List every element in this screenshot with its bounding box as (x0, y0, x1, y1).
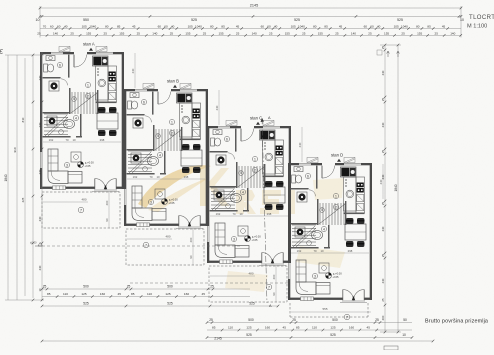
top dimension chains (40, 6, 461, 38)
watermark logo (138, 165, 345, 292)
unit stan D (288, 158, 383, 303)
unit stan C (207, 121, 302, 266)
section line A-A (262, 118, 267, 303)
scan noise film (0, 0, 1, 1)
setback dashed line AB (42, 245, 240, 247)
terrace stan A (42, 192, 120, 228)
label 7 terrace B (143, 242, 149, 248)
terrace stan C (209, 266, 287, 302)
bottom dimension chains under A B (42, 289, 278, 306)
terrace stan B (126, 229, 204, 265)
table fragment bottom right (384, 346, 398, 350)
label 7 terrace A (78, 207, 84, 213)
left dimension chains (5, 52, 44, 300)
label 7 terrace C (266, 284, 272, 290)
setback dashed line CD (130, 282, 288, 284)
unit stan B (124, 84, 219, 229)
right dimension chains (380, 45, 401, 332)
label 7 terrace D (344, 314, 350, 320)
bottom dimension chains under C D (42, 323, 433, 342)
terrace stan D (290, 303, 368, 317)
unit stan A (40, 47, 135, 192)
